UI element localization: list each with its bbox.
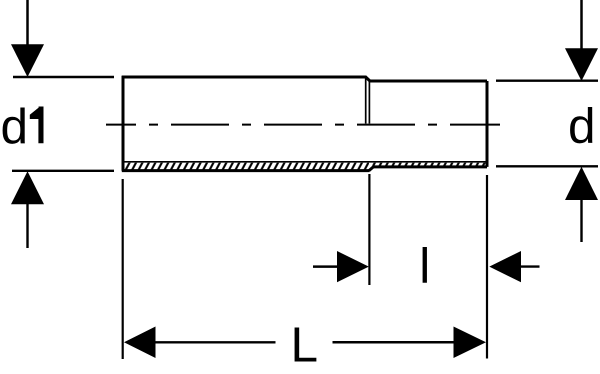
arrow d top [565, 0, 598, 81]
body right edge [486, 81, 489, 167]
arrow d1 bottom [11, 171, 44, 248]
wall hatch right band [371, 163, 486, 166]
extension line middle [368, 174, 370, 285]
socket step double line right [368, 81, 370, 124]
arrow L right [333, 327, 487, 359]
wall bottom edge left [122, 169, 370, 172]
dimension line d top [496, 79, 598, 81]
wall hatch inner line [122, 161, 486, 163]
dimension line d bottom [496, 165, 598, 167]
pipe body outline [122, 76, 487, 171]
svg-text:d: d [568, 99, 596, 154]
dimension line d1 bottom [12, 170, 114, 172]
arrow l left [313, 251, 369, 282]
wall hatch left band [124, 163, 370, 170]
body top edge with step [122, 77, 487, 81]
svg-text:d: d [1, 99, 29, 154]
arrow d bottom [565, 167, 598, 242]
wall bottom edge right [373, 165, 488, 168]
body left edge [122, 76, 125, 171]
centerline [106, 124, 500, 126]
svg-text:l: l [419, 238, 430, 293]
extension line right [486, 175, 488, 359]
socket step double line left [365, 77, 367, 124]
dimension line d1 top [13, 76, 114, 78]
extension line left [122, 179, 124, 359]
arrow d1 top [11, 0, 44, 77]
wall bottom step [369, 167, 373, 171]
svg-text:L: L [291, 318, 319, 373]
arrow L left [124, 327, 276, 359]
arrow l right [489, 251, 539, 282]
